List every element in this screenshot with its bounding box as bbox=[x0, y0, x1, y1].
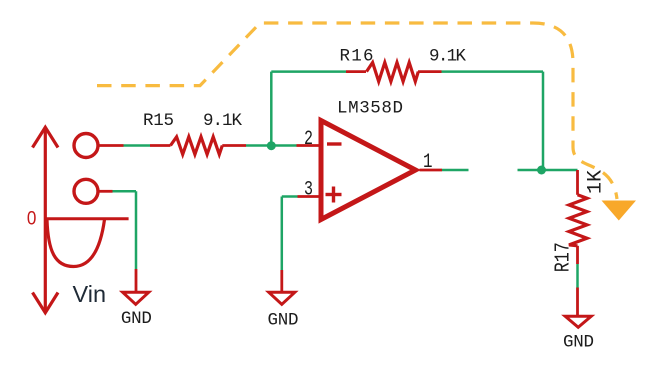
ground (source) bbox=[121, 292, 152, 329]
svg-text:0: 0 bbox=[27, 208, 37, 230]
node B junction dot bbox=[537, 166, 546, 175]
svg-text:9.1K: 9.1K bbox=[429, 46, 466, 66]
wire: node B to R17 bbox=[542, 170, 578, 195]
signal-flow dashed arrow path bbox=[97, 23, 617, 199]
svg-text:R17: R17 bbox=[552, 242, 575, 272]
wire: to output node B bbox=[518, 169, 542, 172]
svg-text:GND: GND bbox=[121, 309, 152, 329]
svg-text:R16: R16 bbox=[340, 46, 374, 66]
source Vin half-sine waveform bbox=[47, 220, 105, 267]
svg-text:9.1K: 9.1K bbox=[203, 111, 242, 131]
ground (op-amp pin 3) bbox=[268, 292, 299, 330]
node A junction dot bbox=[267, 141, 276, 150]
wire: R17 to ground bbox=[576, 246, 579, 316]
source Vin axis double arrow bbox=[33, 127, 59, 312]
op-amp U1 LM358D bbox=[321, 121, 416, 220]
wire: node A to op-amp pin 2 bbox=[271, 144, 321, 147]
svg-text:LM358D: LM358D bbox=[337, 98, 403, 118]
source Vin zero baseline bbox=[44, 217, 129, 220]
terminal circle bottom bbox=[74, 179, 98, 203]
signal-flow arrowhead bbox=[602, 201, 637, 221]
wire: R15 to node A bbox=[222, 144, 271, 147]
wire: bottom terminal to ground bbox=[98, 191, 136, 292]
svg-text:GND: GND bbox=[268, 311, 299, 331]
svg-text:R15: R15 bbox=[143, 111, 174, 131]
wire: op-amp output bbox=[420, 169, 469, 172]
svg-text:2: 2 bbox=[304, 128, 313, 151]
svg-text:GND: GND bbox=[563, 332, 594, 352]
wire: feedback riser from node A bbox=[270, 72, 273, 146]
resistor R16 bbox=[367, 63, 419, 82]
resistor R15 bbox=[171, 137, 223, 155]
terminal circle top bbox=[74, 134, 98, 158]
svg-text:Vin: Vin bbox=[73, 281, 107, 307]
wire: top terminal to R15 bbox=[100, 144, 171, 147]
wire: R16 to output column bbox=[418, 72, 543, 170]
wire: feedback top rail to R16 bbox=[271, 70, 366, 73]
resistor R17 bbox=[569, 195, 587, 246]
ground (R17) bbox=[563, 316, 594, 352]
wire: op-amp pin 3 stub bbox=[282, 197, 321, 293]
svg-text:1K: 1K bbox=[585, 170, 608, 194]
svg-text:3: 3 bbox=[304, 179, 313, 202]
